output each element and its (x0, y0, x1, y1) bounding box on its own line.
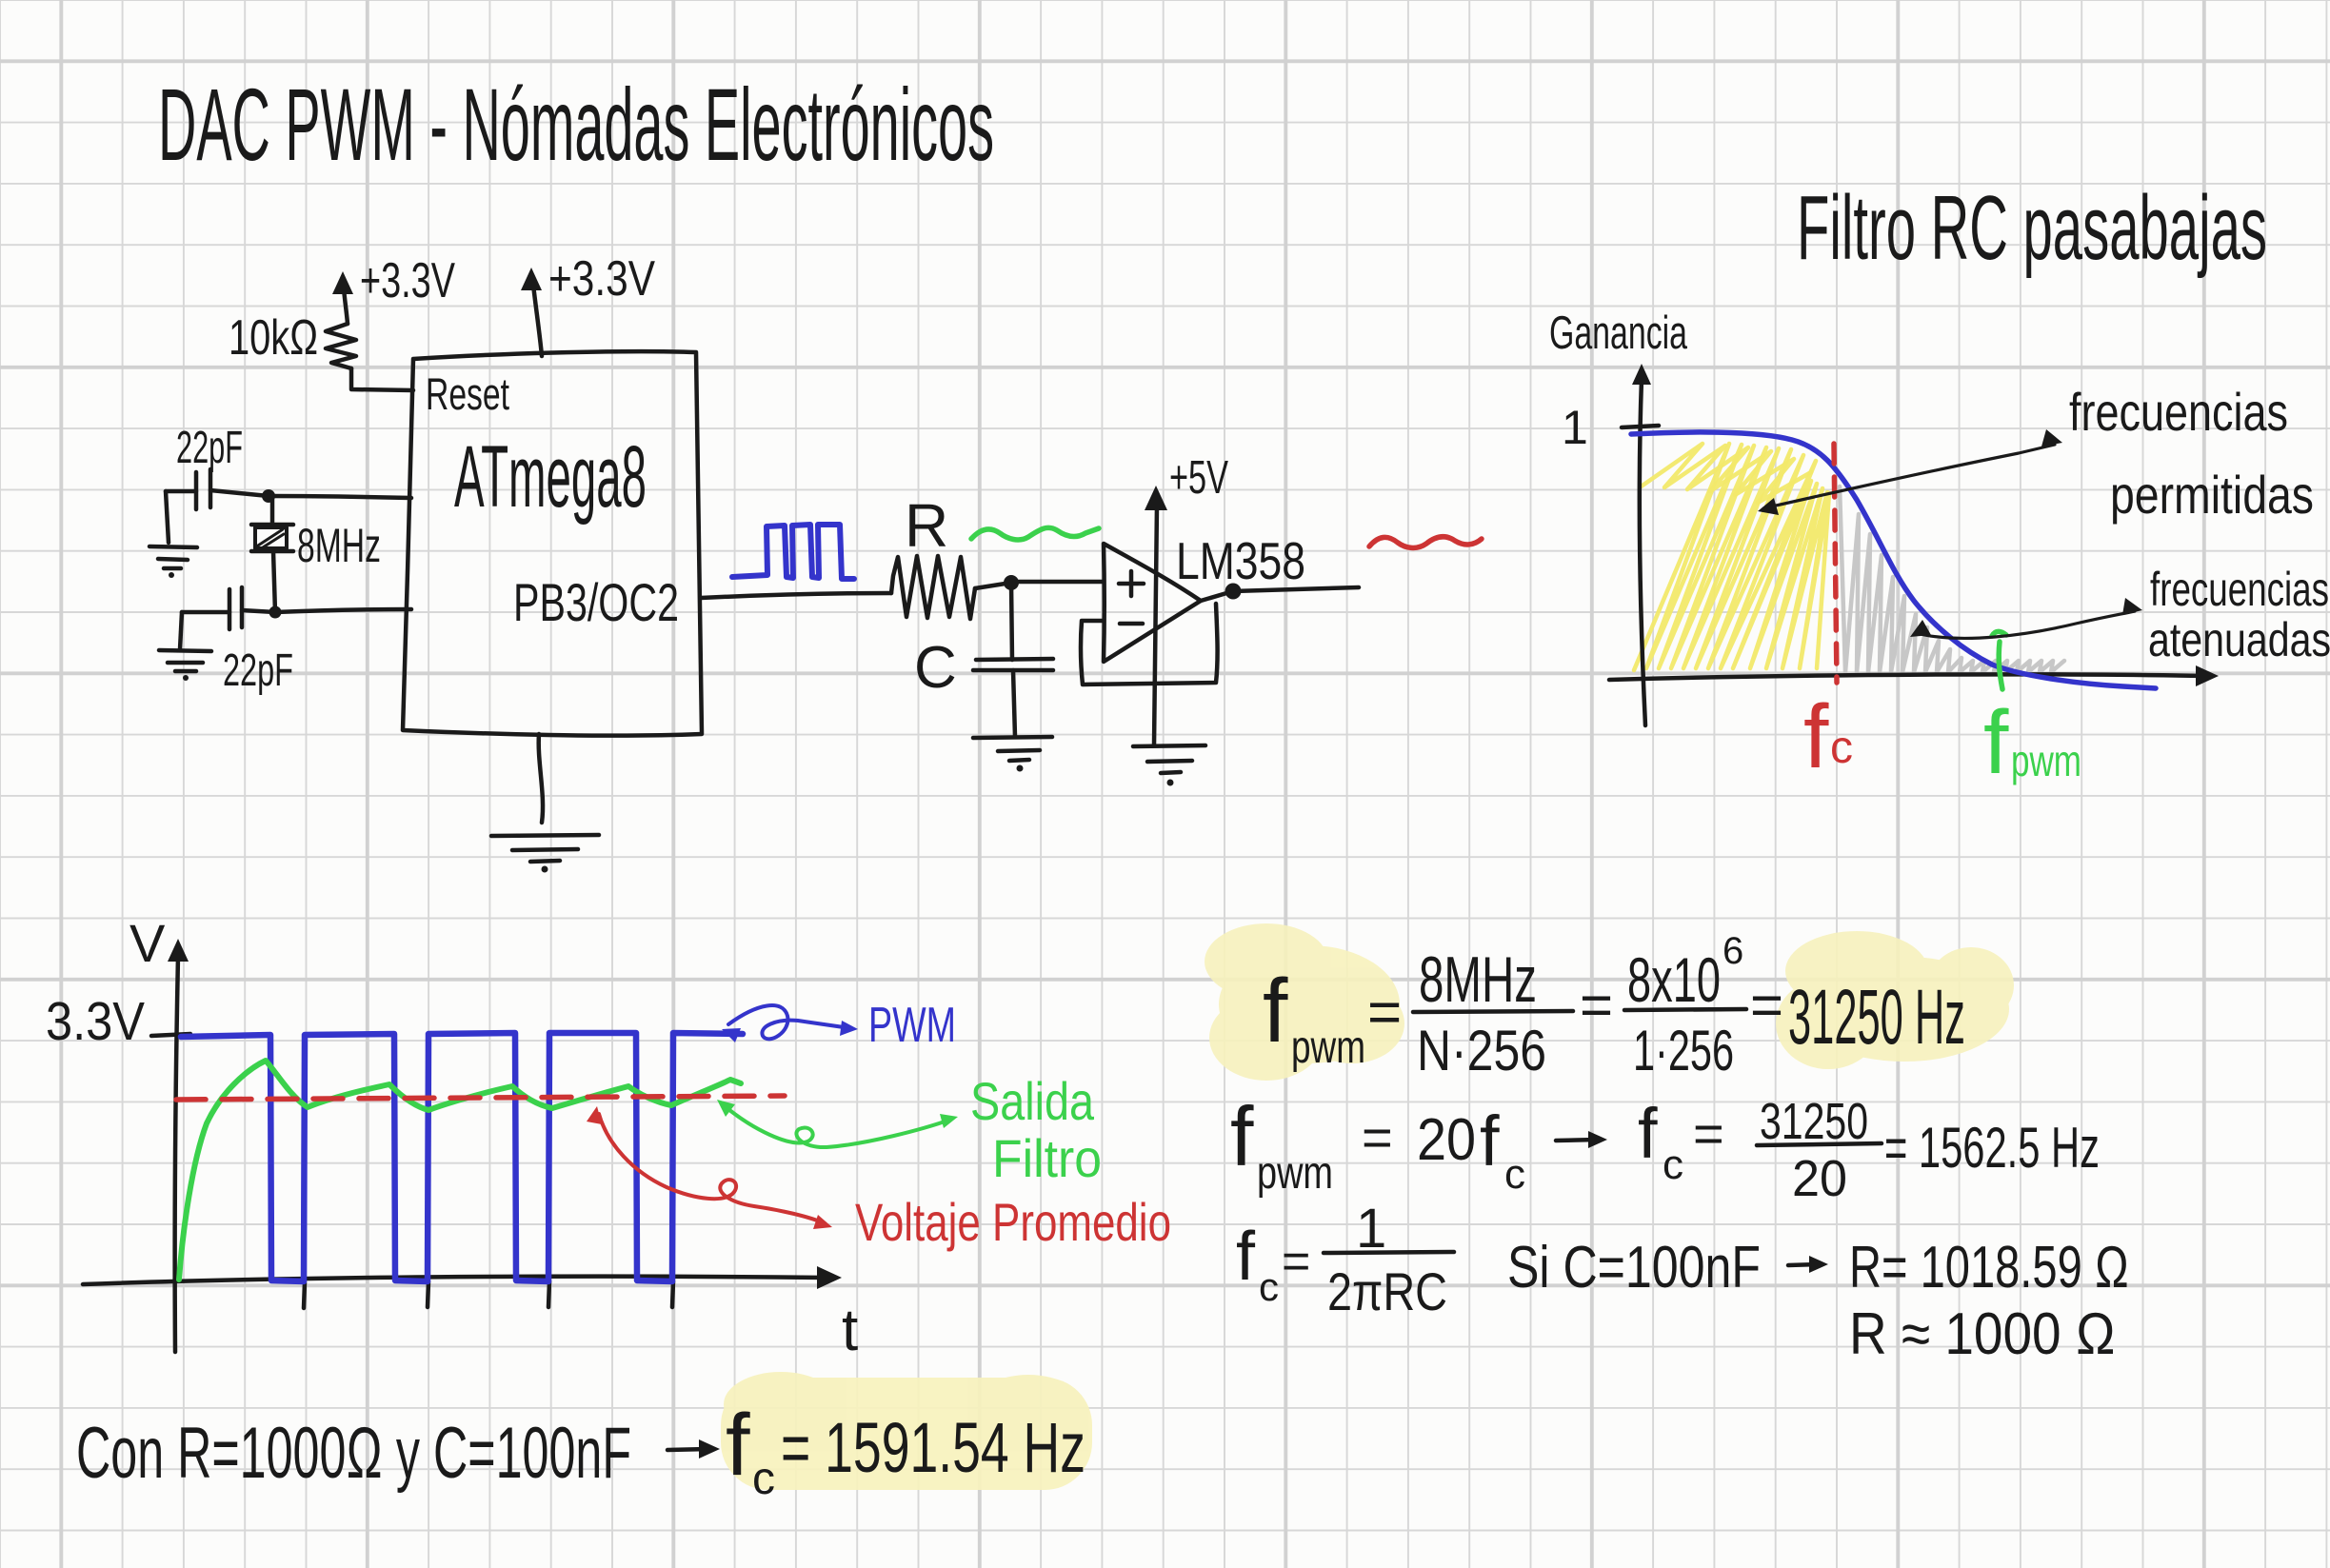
wire to ground (180, 612, 182, 649)
wire feedback loop U2 (1081, 604, 1218, 685)
wire C3 to ground (1013, 670, 1015, 737)
svg-text:10kΩ: 10kΩ (229, 310, 318, 366)
svg-text:Con R=1000Ω y C=100nF: Con R=1000Ω y C=100nF (76, 1413, 631, 1494)
wire node to op-amp (1011, 580, 1104, 585)
svg-text:22pF: 22pF (176, 423, 243, 473)
svg-text:=: = (1750, 973, 1783, 1037)
svg-text:PB3/OC2: PB3/OC2 (513, 572, 679, 632)
svg-text:V: V (129, 913, 166, 973)
ground (C2) (159, 650, 211, 681)
svg-text:=: = (1367, 980, 1402, 1045)
svg-text:frecuencias: frecuencias (2150, 563, 2329, 616)
svg-text:c: c (1259, 1264, 1279, 1309)
svg-text:permitidas: permitidas (2110, 465, 2314, 525)
resistor R2 zigzag (891, 556, 975, 619)
svg-text:Filtro RC pasabajas: Filtro RC pasabajas (1797, 177, 2267, 279)
node RC (1004, 575, 1019, 590)
wire node to C3 (1011, 583, 1012, 660)
svg-text:atenuadas: atenuadas (2148, 613, 2330, 666)
svg-text:ATmega8: ATmega8 (454, 428, 647, 526)
average voltage dashed line (red) (176, 1096, 785, 1100)
svg-text:pwm: pwm (1257, 1148, 1333, 1199)
power +3.3V (VCC pin) (521, 251, 655, 356)
svg-text:8MHz: 8MHz (1419, 943, 1537, 1016)
svg-text:c: c (1663, 1141, 1683, 1188)
tick 1 (1622, 426, 1659, 427)
svg-text:f: f (1236, 1219, 1256, 1295)
PWM waveform (blue) (181, 1033, 743, 1281)
op-amp U2 pin - input (1120, 622, 1143, 626)
svg-text:LM358: LM358 (1176, 531, 1305, 590)
highlight blob (fc=1591.54Hz) (721, 1372, 1092, 1490)
PWM square glyph (blue) (732, 525, 854, 579)
op-amp U2 pin + input (1119, 571, 1144, 596)
arrow to stopband (1910, 598, 2142, 638)
resistor R1 10k zigzag (326, 324, 356, 368)
capacitor C1 22pF (166, 469, 269, 509)
svg-text:1: 1 (1562, 401, 1588, 454)
ground (op-amp) (1133, 745, 1205, 786)
t axis (83, 1266, 842, 1289)
svg-text:3.3V: 3.3V (46, 991, 145, 1052)
svg-text:c: c (1504, 1151, 1525, 1198)
svg-text:+5V: +5V (1169, 452, 1228, 504)
filter output curve (green) (179, 1061, 741, 1280)
svg-text:frecuencias: frecuencias (2069, 382, 2288, 442)
svg-text:f: f (1803, 686, 1829, 787)
formula fpwm = 20fc -> fc = 31250/20 = 1562.5 Hz (1230, 1089, 2100, 1207)
svg-text:f: f (1983, 692, 2009, 793)
highlight blob (31250 Hz) (1776, 931, 2014, 1069)
svg-text:22pF: 22pF (223, 645, 293, 696)
IC U1 ATmega8 box (403, 351, 702, 736)
red arrow to Voltaje Promedio (587, 1106, 832, 1229)
svg-text:+3.3V: +3.3V (360, 253, 455, 308)
svg-text:+3.3V: +3.3V (548, 251, 655, 307)
green fpwm marker line (1992, 631, 2006, 689)
svg-text:f: f (1230, 1089, 1254, 1183)
svg-text:Ganancia: Ganancia (1549, 308, 1688, 359)
yellow scribble top band (1640, 444, 1811, 503)
red output squiggle (1369, 537, 1482, 548)
wire node to IC (269, 496, 411, 498)
ground (C3) (973, 737, 1052, 772)
svg-text:R= 1018.59 Ω: R= 1018.59 Ω (1849, 1235, 2129, 1300)
red dashed fc line (1834, 444, 1837, 683)
svg-text:2πRC: 2πRC (1327, 1261, 1447, 1321)
svg-text:=: = (1693, 1103, 1724, 1163)
svg-text:31250 Hz: 31250 Hz (1788, 974, 1965, 1061)
svg-text:f: f (1263, 961, 1288, 1062)
green ripple squiggle (971, 527, 1099, 540)
wire node to IC (275, 609, 411, 612)
blue arrow to PWM label (722, 1005, 858, 1042)
formula Si C=100nF -> R=1018.59 ohm (1507, 1235, 2129, 1300)
formula fc = 1/2piRC (1236, 1198, 1454, 1321)
capacitor C2 22pF (182, 587, 275, 629)
svg-text:c: c (752, 1454, 775, 1504)
svg-text:31250: 31250 (1760, 1093, 1868, 1150)
gray scribble fill (stopband) (1840, 486, 2064, 672)
svg-text:20: 20 (1417, 1107, 1476, 1173)
wire U1 pin PB3/OC2 output (701, 593, 891, 598)
svg-text:t: t (842, 1298, 858, 1363)
arrow (667, 1439, 720, 1459)
svg-text:6: 6 (1723, 930, 1743, 972)
svg-text:DAC PWM - Nómadas Electrónicos: DAC PWM - Nómadas Electrónicos (158, 67, 994, 182)
ground (C1) (149, 546, 197, 578)
formula fc = 1591.54 Hz (726, 1397, 1085, 1504)
power +3.3V (pull-up) (332, 253, 455, 324)
svg-text:c: c (1830, 723, 1853, 773)
svg-text:f: f (1638, 1094, 1658, 1173)
power +5V (1145, 452, 1228, 745)
yellow scribble fill (passband) (1634, 444, 1829, 670)
svg-text:C: C (914, 635, 957, 701)
crystal X1 (251, 496, 293, 612)
svg-text:Salida: Salida (970, 1071, 1095, 1131)
svg-text:f: f (726, 1397, 750, 1494)
wire R1 to Reset pin (351, 368, 413, 390)
node XTAL2 (269, 606, 282, 619)
svg-text:Voltaje Promedio: Voltaje Promedio (855, 1192, 1171, 1252)
formula fpwm = 8MHz/N.256 = 8x10^6/1.256 = 31250Hz (1263, 930, 1965, 1082)
highlight blob (fpwm=) (1205, 923, 1404, 1081)
ground (U1) (491, 835, 599, 873)
svg-text:pwm: pwm (2011, 736, 2081, 785)
svg-text:Filtro: Filtro (992, 1128, 1102, 1188)
blue lowpass response curve (1631, 432, 2156, 688)
capacitor C3 plates (973, 659, 1053, 670)
arrow to passband (1758, 429, 2062, 515)
svg-text:1: 1 (1356, 1198, 1386, 1260)
tick 3.3V (151, 1034, 190, 1036)
svg-text:pwm: pwm (1291, 1022, 1365, 1073)
svg-text:Si C=100nF: Si C=100nF (1507, 1235, 1761, 1300)
svg-text:R: R (905, 491, 948, 560)
V axis (168, 939, 189, 1352)
svg-text:1·256: 1·256 (1633, 1019, 1734, 1082)
svg-text:= 1562.5 Hz: = 1562.5 Hz (1884, 1116, 2100, 1180)
label fc (red) (1803, 686, 1853, 787)
gain Y axis (1632, 364, 1651, 725)
freq X axis (1609, 665, 2219, 686)
node output (1225, 584, 1242, 600)
svg-text:PWM: PWM (868, 998, 956, 1053)
node XTAL1 (262, 489, 275, 503)
svg-text:N·256: N·256 (1417, 1019, 1546, 1082)
wire U2 output (1201, 587, 1359, 601)
svg-text:f: f (1480, 1102, 1500, 1181)
wire R2 to node (975, 583, 1011, 588)
svg-text:8x10: 8x10 (1627, 944, 1721, 1015)
wire to ground (166, 491, 169, 543)
svg-text:20: 20 (1792, 1150, 1847, 1207)
svg-text:=: = (1580, 973, 1613, 1037)
svg-text:=: = (1282, 1234, 1310, 1289)
svg-text:8MHz: 8MHz (297, 519, 381, 572)
label fpwm (green) (1983, 692, 2081, 793)
green arrow to Salida (717, 1100, 958, 1147)
t axis ticks (304, 1281, 673, 1308)
svg-text:Reset: Reset (426, 368, 509, 419)
svg-text:R ≈ 1000 Ω: R ≈ 1000 Ω (1849, 1301, 2116, 1367)
op-amp U2 triangle (1104, 544, 1201, 662)
svg-text:= 1591.54 Hz: = 1591.54 Hz (781, 1408, 1085, 1487)
wire U1 GND pin (539, 734, 543, 823)
svg-text:=: = (1362, 1107, 1393, 1167)
